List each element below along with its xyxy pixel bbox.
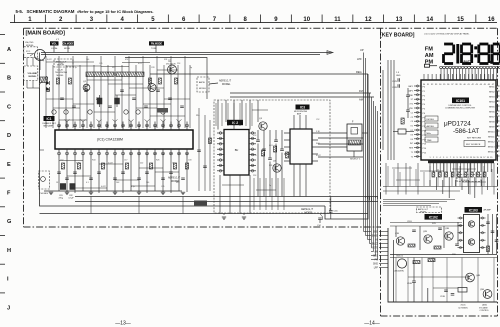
svg-text:C28: C28: [151, 67, 154, 69]
board divider chain line: [380, 28, 382, 316]
resistor band R20-R27: [86, 72, 114, 77]
wires left column: [26, 57, 28, 66]
resistor R13B: [428, 259, 435, 262]
svg-text:T1: T1: [411, 152, 413, 154]
IC101 right pins: [496, 85, 500, 87]
svg-text:μPD1724: μPD1724: [444, 121, 471, 128]
top ruler line: [10, 22, 497, 24]
svg-text:5: 5: [443, 157, 444, 159]
wire REG: [150, 73, 368, 75]
solid bottom line B: [40, 213, 369, 215]
wires between IC3 and bus: [318, 137, 363, 139]
svg-text:BATT: BATT: [464, 60, 472, 64]
svg-text:11: 11: [334, 17, 341, 23]
resistors right of IC2: [262, 150, 265, 156]
crystal X101: [458, 288, 467, 293]
svg-text:TIME: TIME: [427, 140, 433, 142]
svg-text:FM.MODE: FM.MODE: [151, 43, 163, 46]
svg-text:REG: REG: [356, 70, 362, 74]
extra wires below IC101: [387, 166, 389, 186]
svg-text:19: 19: [490, 157, 492, 159]
svg-text:GND: GND: [373, 264, 378, 266]
black label S1: [50, 41, 59, 45]
svg-text:COMBINED MICRO-COMPUTER: COMBINED MICRO-COMPUTER: [445, 108, 476, 110]
svg-text:C45: C45: [99, 63, 102, 65]
ground symbols below IC1: [49, 191, 53, 193]
small sel boxes: [425, 116, 438, 121]
svg-text:—13—: —13—: [115, 321, 131, 327]
svg-text:AEP,E,G,/T: AEP,E,G,/T: [459, 176, 471, 179]
wires left edge down: [39, 88, 41, 150]
svg-text:16: 16: [480, 157, 482, 159]
wire bus top pair: [41, 52, 332, 54]
svg-text:C33: C33: [188, 160, 191, 162]
svg-text:K3: K3: [411, 134, 413, 136]
key board horizontal bus: [383, 199, 455, 201]
svg-text:C3: C3: [411, 121, 413, 123]
dashed model box right of Q1: [197, 77, 209, 92]
svg-text:K4: K4: [411, 139, 413, 141]
ground symbols IC2: [222, 216, 226, 218]
svg-text:10: 10: [460, 157, 462, 159]
resistors above IC1: [57, 78, 60, 84]
svg-text:R31: R31: [164, 59, 167, 61]
svg-text:100: 100: [86, 59, 89, 61]
wires IC2 vertical: [217, 100, 219, 130]
connector arrow on bus: [327, 51, 333, 55]
svg-text:MODE: MODE: [64, 48, 71, 50]
svg-text:BZ101: BZ101: [397, 256, 404, 258]
svg-text:6: 6: [446, 157, 447, 159]
wires left of IC101: [387, 60, 389, 160]
svg-text:IC101: IC101: [456, 99, 465, 103]
svg-text:MODEL: MODEL: [29, 76, 38, 78]
svg-text:16: 16: [488, 17, 495, 23]
capacitor C16: [329, 210, 333, 212]
svg-text:100: 100: [146, 182, 149, 184]
svg-text:IC102: IC102: [429, 216, 438, 220]
svg-text:R49: R49: [71, 186, 74, 188]
IC1 bottom pins: [58, 149, 60, 158]
svg-text:LOCAL: LOCAL: [51, 47, 58, 50]
svg-text:LPF: LPF: [357, 57, 362, 61]
electrolytic C81 dark: [60, 183, 66, 190]
electrolytic C12 dark: [97, 98, 103, 105]
resistor R1B: [401, 118, 404, 124]
capacitor C34: [318, 217, 322, 219]
resistor R12B: [413, 261, 420, 264]
svg-text:18: 18: [487, 157, 489, 159]
svg-text:SEG13: SEG13: [488, 147, 496, 149]
IC3 pins: [284, 132, 290, 134]
svg-text:E: E: [7, 162, 11, 168]
svg-text:X101: X101: [460, 305, 466, 307]
dashed model box AEP top-left: [54, 59, 73, 67]
black label S3: [149, 41, 164, 45]
svg-text:H: H: [7, 248, 11, 254]
wires below IC1: [58, 158, 60, 192]
wire vertical bus to key board: [363, 53, 365, 197]
wire box around Q1: [125, 58, 207, 100]
jack J1 circle left edge: [35, 50, 46, 61]
svg-text:0.1: 0.1: [86, 182, 89, 184]
dashed model label IC102: [417, 207, 442, 213]
svg-text:D: D: [7, 133, 11, 139]
svg-text:SEG11: SEG11: [488, 137, 495, 139]
black label S2: [63, 41, 75, 45]
svg-text:F: F: [7, 191, 11, 197]
svg-text:SEG3: SEG3: [489, 97, 495, 99]
svg-text:UP: UP: [360, 48, 364, 52]
IC101 body uPD1724: [421, 80, 496, 160]
svg-text:MHz: MHz: [427, 133, 431, 135]
IC3 label box: [296, 105, 310, 110]
svg-text:9: 9: [457, 157, 458, 159]
svg-text:0.022: 0.022: [47, 59, 52, 61]
LCD digit 8a: [462, 43, 471, 46]
svg-text:5-5.: 5-5.: [16, 9, 24, 14]
svg-text:C2: C2: [411, 117, 413, 119]
gray label box K-9: [157, 108, 168, 113]
svg-text:32.768kHz: 32.768kHz: [458, 307, 468, 309]
svg-text:IC 2: IC 2: [232, 121, 238, 125]
IC1 top pins: [58, 122, 60, 131]
svg-text:13: 13: [396, 17, 403, 23]
capacitors C12B C13B: [444, 289, 448, 291]
svg-text:FM: FM: [359, 89, 363, 93]
svg-text:VOL: VOL: [52, 42, 58, 46]
svg-text:4.7μ: 4.7μ: [73, 67, 77, 69]
capacitor C2B: [406, 109, 410, 111]
svg-text:AM: AM: [425, 53, 434, 59]
IC101 label box: [452, 98, 469, 104]
svg-text:C45: C45: [161, 186, 164, 188]
svg-text:CX-28: CX-28: [57, 70, 64, 72]
svg-text:FM/AM IF DET,: FM/AM IF DET,: [43, 122, 57, 125]
svg-text:13: 13: [470, 157, 472, 159]
buzzer BZ101: [397, 259, 406, 268]
svg-text:AM: AM: [359, 98, 363, 102]
capacitors right of IC2: [256, 139, 260, 141]
svg-text:4.7μ: 4.7μ: [131, 186, 135, 188]
IC102 components: [408, 244, 415, 247]
wire FM line: [230, 92, 371, 94]
svg-text:—14—: —14—: [364, 321, 380, 327]
svg-text:A: A: [7, 47, 11, 53]
wire ties below IC1: [59, 160, 83, 162]
svg-text:R12: R12: [176, 182, 179, 184]
svg-text:220: 220: [140, 163, 143, 165]
transistor Q1: [168, 65, 177, 74]
IC1 label box: [44, 116, 55, 121]
LCD connector pads: [440, 66, 443, 68]
solid bottom line A: [40, 53, 326, 207]
IC101 left pins: [414, 85, 421, 87]
dashed model box US/CDN: [214, 100, 330, 213]
key board chain outline bottom: [381, 315, 498, 317]
wires bottom right verticals: [395, 258, 397, 302]
svg-text:SEG1: SEG1: [489, 87, 495, 89]
svg-text:SEG4: SEG4: [489, 102, 495, 104]
wire bottom bus 1: [75, 196, 378, 198]
svg-text:C12B: C12B: [392, 87, 397, 89]
svg-text:IC3: IC3: [300, 106, 305, 110]
svg-text:AEP/E: AEP/E: [199, 81, 206, 84]
LCD colon: [474, 46, 477, 49]
electrolytic caps row: [52, 110, 56, 114]
svg-text:SEG2: SEG2: [489, 92, 495, 94]
svg-text:R44: R44: [316, 143, 319, 145]
LCD battery symbol: [425, 64, 430, 67]
svg-text:14: 14: [473, 157, 475, 159]
svg-text:SEG8: SEG8: [489, 122, 495, 124]
svg-text:B: B: [7, 76, 11, 82]
solid bottom line C right: [325, 74, 368, 219]
svg-text:10μ: 10μ: [172, 163, 175, 165]
capacitor C75 column: [198, 108, 200, 191]
svg-text:15: 15: [477, 157, 479, 159]
key board inner box line2: [393, 240, 395, 302]
LCD digit 2: [444, 43, 453, 46]
main board chain outline left: [23, 28, 25, 227]
wire stubs under switches: [53, 46, 55, 53]
svg-text:SEG12: SEG12: [488, 142, 496, 144]
svg-text:US,CND: US,CND: [25, 42, 34, 44]
svg-text:15: 15: [457, 17, 464, 23]
dark label box R58: [194, 201, 207, 206]
LCD digit 8b: [479, 43, 488, 46]
svg-text:14: 14: [426, 17, 433, 23]
electrolytic C82 dark: [70, 183, 76, 190]
svg-text:C1: C1: [411, 112, 413, 114]
transistor Q5: [273, 164, 281, 172]
components right edge: [487, 214, 489, 254]
top ruler ticks: [14, 15, 16, 23]
svg-text:SEG5: SEG5: [489, 107, 495, 109]
svg-text:R26: R26: [156, 160, 159, 162]
capacitors C17B C12B: [397, 78, 399, 82]
wires IC102 area: [390, 222, 462, 224]
wire ties above IC1: [46, 61, 94, 63]
svg-text:7: 7: [450, 157, 451, 159]
svg-text:MODEL: MODEL: [420, 211, 426, 213]
IC U3 body: [290, 129, 312, 164]
capacitor C1B: [406, 94, 410, 96]
svg-text:MODEL: MODEL: [199, 88, 207, 90]
svg-text:Q3B: Q3B: [445, 228, 450, 230]
svg-text:FM: FM: [425, 46, 433, 52]
svg-text:C28: C28: [253, 155, 256, 157]
svg-text:0.01: 0.01: [138, 63, 142, 65]
volume dashed box: [24, 66, 38, 81]
IC103 pins: [458, 217, 464, 219]
svg-text:2: 2: [433, 157, 434, 159]
svg-text:0.01: 0.01: [269, 145, 273, 147]
key board inner box left: [388, 228, 497, 302]
dashed model box below IC101: [457, 175, 481, 182]
extra wires IC2 region: [215, 103, 217, 126]
svg-text:PHONES: PHONES: [40, 193, 49, 195]
svg-text:C11B: C11B: [407, 221, 412, 223]
wire AM line: [230, 96, 374, 98]
svg-text:SEG10: SEG10: [488, 132, 496, 134]
svg-text:CONTROL: CONTROL: [480, 310, 489, 312]
svg-text:CAP2: CAP2: [408, 89, 413, 92]
wire bottom bus 2: [75, 201, 378, 203]
svg-text:MODEL: MODEL: [57, 75, 65, 77]
svg-text:K1: K1: [411, 126, 413, 128]
IC U2 body: [224, 130, 249, 176]
capacitors above IC1: [46, 89, 50, 91]
IC103 body: [464, 215, 480, 253]
svg-text:IC103: IC103: [469, 209, 478, 213]
dashed jack box bottom-left: [39, 171, 50, 189]
svg-text:C52: C52: [316, 119, 319, 121]
svg-text:C13B: C13B: [440, 296, 445, 298]
svg-text:4: 4: [440, 157, 441, 159]
svg-text:470μ: 470μ: [59, 198, 64, 200]
key board chain outline right: [497, 28, 499, 316]
svg-text:C17: C17: [124, 160, 127, 162]
svg-text:BU: BU: [235, 148, 239, 152]
svg-text:2SC2412K: 2SC2412K: [166, 64, 176, 66]
svg-text:G: G: [7, 219, 11, 225]
transistor Q3: [259, 122, 267, 130]
svg-text:R44: R44: [92, 160, 95, 162]
svg-text:R12: R12: [112, 67, 115, 69]
svg-text:[MAIN BOARD]: [MAIN BOARD]: [26, 31, 66, 37]
svg-text:C52: C52: [60, 160, 63, 162]
IC2 pins: [217, 132, 224, 134]
svg-text:DISPLAY KEY CONTROL: DISPLAY KEY CONTROL: [448, 104, 472, 107]
wire bottom bus keyboard: [390, 254, 497, 256]
svg-text:0.047: 0.047: [316, 155, 321, 157]
wire mid horizontal: [408, 276, 470, 278]
svg-text:LPF: LPF: [374, 268, 379, 270]
svg-text:(IC1) CXA1238M: (IC1) CXA1238M: [97, 138, 123, 142]
svg-text:C17B: C17B: [392, 81, 397, 83]
svg-text:C: C: [7, 104, 11, 110]
resistor row below IC101: [432, 172, 435, 177]
svg-text:SEG14: SEG14: [488, 152, 496, 154]
IC1 pin arrows: [65, 120, 70, 122]
svg-text:SELECT 1: SELECT 1: [350, 159, 361, 161]
LCD digit 1: [456, 44, 459, 64]
svg-text:17: 17: [483, 157, 485, 159]
wires below resistor row: [429, 180, 431, 186]
wire drops to bottom line: [90, 197, 92, 214]
svg-text:Q2B: Q2B: [423, 231, 428, 233]
svg-text:SEG6: SEG6: [489, 112, 495, 114]
svg-text:SEG7: SEG7: [489, 117, 495, 119]
capacitors below IC1: [57, 171, 61, 173]
IC101 bottom pins: [428, 160, 494, 163]
resistors below IC1: [61, 163, 64, 169]
key source box: [464, 141, 485, 147]
svg-text:MODEL: MODEL: [222, 83, 231, 86]
svg-text:AM SEL: AM SEL: [427, 125, 435, 128]
IC103 label box: [465, 207, 483, 213]
IC102 label box: [425, 214, 443, 220]
svg-text:10: 10: [303, 17, 310, 23]
LCD dot: [490, 61, 493, 64]
transistor Q105: [483, 290, 492, 299]
svg-text:3: 3: [436, 157, 437, 159]
main board chain outline bottom: [24, 226, 382, 228]
svg-text:11: 11: [463, 157, 465, 159]
svg-text:0.047: 0.047: [108, 163, 113, 165]
wires above IC1: [45, 56, 47, 128]
diode D1: [46, 81, 50, 85]
svg-text:TONE: TONE: [151, 48, 157, 50]
op-amp U1 / IC1 body CXA1238M: [55, 130, 193, 149]
main board chain outline top: [24, 27, 498, 29]
svg-text:SEG9: SEG9: [489, 127, 495, 129]
svg-text:12: 12: [365, 17, 372, 23]
svg-text:T2: T2: [411, 156, 413, 158]
svg-text:GND: GND: [396, 75, 401, 77]
ground bus under IC1: [44, 190, 182, 192]
svg-text:CAP1: CAP1: [408, 85, 413, 88]
svg-text:KEY RETURN: KEY RETURN: [467, 138, 481, 140]
svg-text:8: 8: [453, 157, 454, 159]
IC102 circuit transistors: [396, 237, 404, 245]
svg-text:•Refer to page 15 for IC Block: •Refer to page 15 for IC Block Diagrams.: [77, 9, 154, 14]
svg-text:KEY SOURCE: KEY SOURCE: [466, 144, 481, 146]
svg-text:Q5B: Q5B: [480, 289, 485, 291]
svg-text:MPX,AMP: MPX,AMP: [44, 125, 54, 128]
electrolytic C14 dark: [114, 98, 120, 105]
svg-text:LCD LIQUID CRYSTAL DISPLAY: LCD LIQUID CRYSTAL DISPLAY DISPLAY PANEL: [424, 33, 470, 36]
svg-text:IC1: IC1: [47, 117, 52, 121]
svg-text:QB31: QB31: [482, 305, 488, 307]
svg-text:XT2: XT2: [410, 104, 413, 106]
dashed box ST-2: [24, 47, 38, 58]
IC2 label box: [227, 120, 243, 125]
svg-text:-586-1AT: -586-1AT: [453, 128, 479, 135]
filter CF1 box: [347, 124, 362, 151]
wires pads to IC101: [440, 69, 442, 81]
IC3 vertical wires: [293, 115, 295, 129]
left ruler ticks: [0, 34, 5, 36]
svg-text:FM SEL: FM SEL: [427, 119, 435, 121]
svg-text:0.7μF: 0.7μF: [69, 198, 75, 200]
transistor Q104: [466, 273, 475, 282]
svg-text:1μ: 1μ: [190, 67, 192, 69]
capacitor C10B: [412, 280, 416, 282]
svg-text:R31: R31: [269, 165, 272, 167]
svg-text:MODEL: MODEL: [305, 211, 314, 214]
svg-text:J: J: [7, 305, 10, 311]
svg-text:1: 1: [429, 157, 430, 159]
svg-text:CN.MODE: CN.MODE: [63, 43, 75, 46]
LCD digit 8c: [493, 43, 500, 46]
transistor Q2: [83, 84, 90, 91]
IC101 top pins: [423, 74, 425, 80]
wires bus drop to connector: [363, 197, 365, 232]
svg-text:12: 12: [466, 157, 468, 159]
wires filter to bus: [318, 132, 347, 134]
svg-text:SCHEMATIC DIAGRAM: SCHEMATIC DIAGRAM: [27, 9, 75, 14]
crystal X1B: [398, 129, 406, 134]
wires key bus verticals: [385, 163, 387, 195]
transistor Q4: [148, 84, 156, 92]
svg-text:[KEY BOARD]: [KEY BOARD]: [380, 32, 415, 38]
svg-text:AF AMP: AF AMP: [484, 209, 492, 212]
diode D2: [46, 87, 50, 91]
svg-text:0.022: 0.022: [101, 186, 106, 188]
volume pot VR1: [40, 77, 48, 83]
